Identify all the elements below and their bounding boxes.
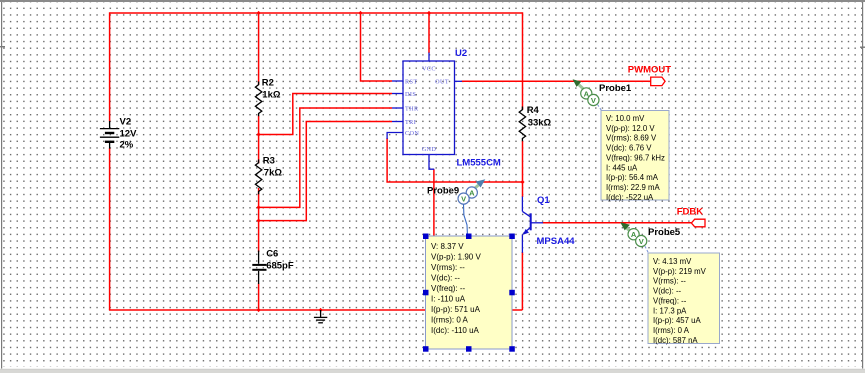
svg-text:LM555CM: LM555CM bbox=[457, 158, 501, 169]
selection handles of Probe9 box bbox=[423, 234, 515, 352]
resistor R4 bbox=[519, 107, 525, 142]
svg-text:Probe5: Probe5 bbox=[648, 227, 681, 238]
svg-text:R4: R4 bbox=[527, 105, 540, 116]
svg-text:V(dc): 6.76 V: V(dc): 6.76 V bbox=[606, 144, 652, 153]
junction RST drop on rail bbox=[358, 11, 362, 15]
pin DIS stub bbox=[392, 93, 403, 95]
svg-text:I: 17.3 pA: I: 17.3 pA bbox=[653, 306, 687, 315]
op-amp U2 LM555CM body bbox=[387, 53, 462, 170]
wire RST branch bbox=[361, 13, 393, 81]
svg-text:33kΩ: 33kΩ bbox=[528, 118, 552, 129]
svg-text:I(rms): 22.9 mA: I(rms): 22.9 mA bbox=[606, 183, 661, 192]
svg-text:VCC: VCC bbox=[422, 66, 436, 73]
probe Probe1 icon bbox=[573, 79, 602, 110]
svg-text:V(freq): --: V(freq): -- bbox=[653, 297, 687, 306]
junction R2 top on rail bbox=[257, 11, 261, 15]
probe Probe9 readout box (selected) bbox=[426, 236, 513, 349]
pin GND stub bbox=[429, 155, 434, 170]
junction U2 VCC on rail bbox=[427, 11, 431, 15]
svg-text:V(dc): --: V(dc): -- bbox=[653, 287, 682, 296]
junction C6 bottom on rail bbox=[257, 308, 261, 312]
svg-text:CON: CON bbox=[405, 130, 419, 137]
svg-text:R2: R2 bbox=[262, 78, 274, 89]
resistor R2 bbox=[255, 82, 261, 117]
wire TRI branch bbox=[259, 122, 392, 221]
probe Probe5 icon bbox=[620, 222, 648, 253]
pin OUT stub bbox=[455, 80, 463, 82]
svg-text:Probe9: Probe9 bbox=[427, 185, 459, 196]
svg-text:685pF: 685pF bbox=[266, 261, 294, 272]
wire U2 GND drop bbox=[433, 169, 435, 310]
svg-text:FDBK: FDBK bbox=[677, 206, 704, 217]
wire R2 to R3 bbox=[258, 116, 260, 164]
flag PWMOUT bbox=[628, 65, 671, 86]
svg-text:2%: 2% bbox=[120, 139, 134, 150]
svg-text:R3: R3 bbox=[263, 156, 275, 167]
wire V2 top drop bbox=[109, 12, 111, 121]
svg-text:PWMOUT: PWMOUT bbox=[628, 65, 671, 76]
svg-text:I: 445 uA: I: 445 uA bbox=[606, 163, 638, 172]
svg-text:V: 4.13 mV: V: 4.13 mV bbox=[653, 257, 692, 266]
wire C6 bottom bbox=[258, 284, 260, 311]
svg-text:V(dc): --: V(dc): -- bbox=[431, 274, 460, 283]
svg-text:Probe1: Probe1 bbox=[599, 83, 632, 94]
wire Q1 emitter to rail bbox=[521, 252, 523, 310]
svg-text:V2: V2 bbox=[120, 117, 132, 128]
svg-text:GND: GND bbox=[422, 146, 437, 153]
svg-text:A: A bbox=[469, 189, 475, 198]
wire R4 bottom to Q1 collector bbox=[522, 141, 524, 197]
svg-text:DIS: DIS bbox=[405, 91, 416, 98]
svg-text:V: 10.0 mV: V: 10.0 mV bbox=[606, 114, 645, 123]
svg-text:V(rms): --: V(rms): -- bbox=[653, 277, 686, 286]
pin TRI stub bbox=[392, 121, 403, 123]
svg-text:MPSA44: MPSA44 bbox=[537, 236, 576, 247]
svg-text:V(rms): 8.69 V: V(rms): 8.69 V bbox=[606, 134, 657, 143]
svg-text:I(p-p): 457 uA: I(p-p): 457 uA bbox=[653, 316, 701, 325]
wire CON branch bbox=[387, 138, 522, 182]
svg-text:12V: 12V bbox=[120, 129, 138, 140]
junction R3 bottom / THR bbox=[257, 205, 261, 209]
ground bbox=[314, 310, 327, 323]
svg-text:I(p-p): 56.4 mA: I(p-p): 56.4 mA bbox=[606, 173, 659, 182]
transistor Q1 MPSA44 bbox=[522, 197, 543, 253]
pin VCC stub bbox=[428, 53, 430, 62]
svg-text:V(p-p): 219 mV: V(p-p): 219 mV bbox=[653, 267, 707, 276]
svg-text:V: V bbox=[639, 237, 644, 246]
svg-text:I(p-p): 571 uA: I(p-p): 571 uA bbox=[431, 305, 481, 314]
svg-text:Q1: Q1 bbox=[537, 195, 550, 206]
wire DIS branch bbox=[259, 94, 392, 135]
svg-text:U2: U2 bbox=[455, 48, 467, 59]
wire U2 OUT to PWMOUT bbox=[462, 80, 651, 82]
svg-text:V(freq): --: V(freq): -- bbox=[431, 284, 466, 293]
wire bottom ground rail bbox=[109, 309, 523, 311]
svg-text:V(p-p): 1.90 V: V(p-p): 1.90 V bbox=[431, 253, 481, 262]
probe Probe9 icon (selected) bbox=[458, 179, 485, 235]
svg-text:I(dc): 587 nA: I(dc): 587 nA bbox=[653, 336, 698, 345]
battery V2 bbox=[100, 121, 119, 149]
pin THR stub bbox=[392, 107, 403, 109]
svg-text:7kΩ: 7kΩ bbox=[264, 168, 283, 179]
wire V2 bottom bbox=[109, 148, 111, 310]
svg-text:1kΩ: 1kΩ bbox=[262, 90, 281, 101]
svg-text:RST: RST bbox=[405, 78, 418, 85]
flag FDBK bbox=[677, 206, 705, 227]
svg-text:I: -110 uA: I: -110 uA bbox=[431, 295, 466, 304]
wire U2 VCC drop bbox=[428, 13, 430, 53]
probe Probe1 readout box bbox=[601, 111, 669, 202]
junction C6 top / TRI bbox=[257, 219, 261, 223]
wire Q1 base to FDBK bbox=[543, 222, 692, 224]
svg-text:I(rms): 0 A: I(rms): 0 A bbox=[431, 316, 469, 325]
svg-text:I(rms): 0 A: I(rms): 0 A bbox=[653, 326, 690, 335]
capacitor C6 bbox=[252, 251, 266, 285]
svg-text:V(freq): 96.7 kHz: V(freq): 96.7 kHz bbox=[606, 153, 665, 162]
wire R3 bottom bbox=[258, 188, 260, 252]
pin RST stub bbox=[392, 80, 403, 82]
resistor R3 bbox=[255, 160, 261, 195]
svg-text:V(rms): --: V(rms): -- bbox=[431, 263, 465, 272]
pin CON stub bbox=[387, 133, 403, 140]
junction ground stem on rail bbox=[319, 308, 323, 312]
wire top VCC rail bbox=[110, 12, 523, 14]
svg-text:THR: THR bbox=[405, 105, 419, 112]
svg-text:V(p-p): 12.0 V: V(p-p): 12.0 V bbox=[606, 124, 655, 133]
svg-text:V: 8.37 V: V: 8.37 V bbox=[431, 242, 464, 251]
svg-text:C6: C6 bbox=[266, 249, 278, 260]
wire R4 top drop bbox=[522, 12, 524, 110]
svg-text:TRI: TRI bbox=[405, 119, 416, 126]
probe Probe5 readout box bbox=[648, 253, 720, 345]
wire R2 top drop bbox=[258, 13, 260, 85]
svg-text:OUT: OUT bbox=[435, 78, 449, 85]
junction CON / R4 bottom bbox=[520, 180, 524, 184]
svg-text:I(dc): -522 uA: I(dc): -522 uA bbox=[606, 193, 654, 202]
svg-text:V: V bbox=[591, 96, 596, 105]
junction R2 bottom / DIS bbox=[257, 132, 261, 136]
svg-text:I(dc): -110 uA: I(dc): -110 uA bbox=[431, 326, 480, 335]
wire THR branch bbox=[259, 108, 392, 207]
svg-text:V: V bbox=[461, 195, 466, 204]
